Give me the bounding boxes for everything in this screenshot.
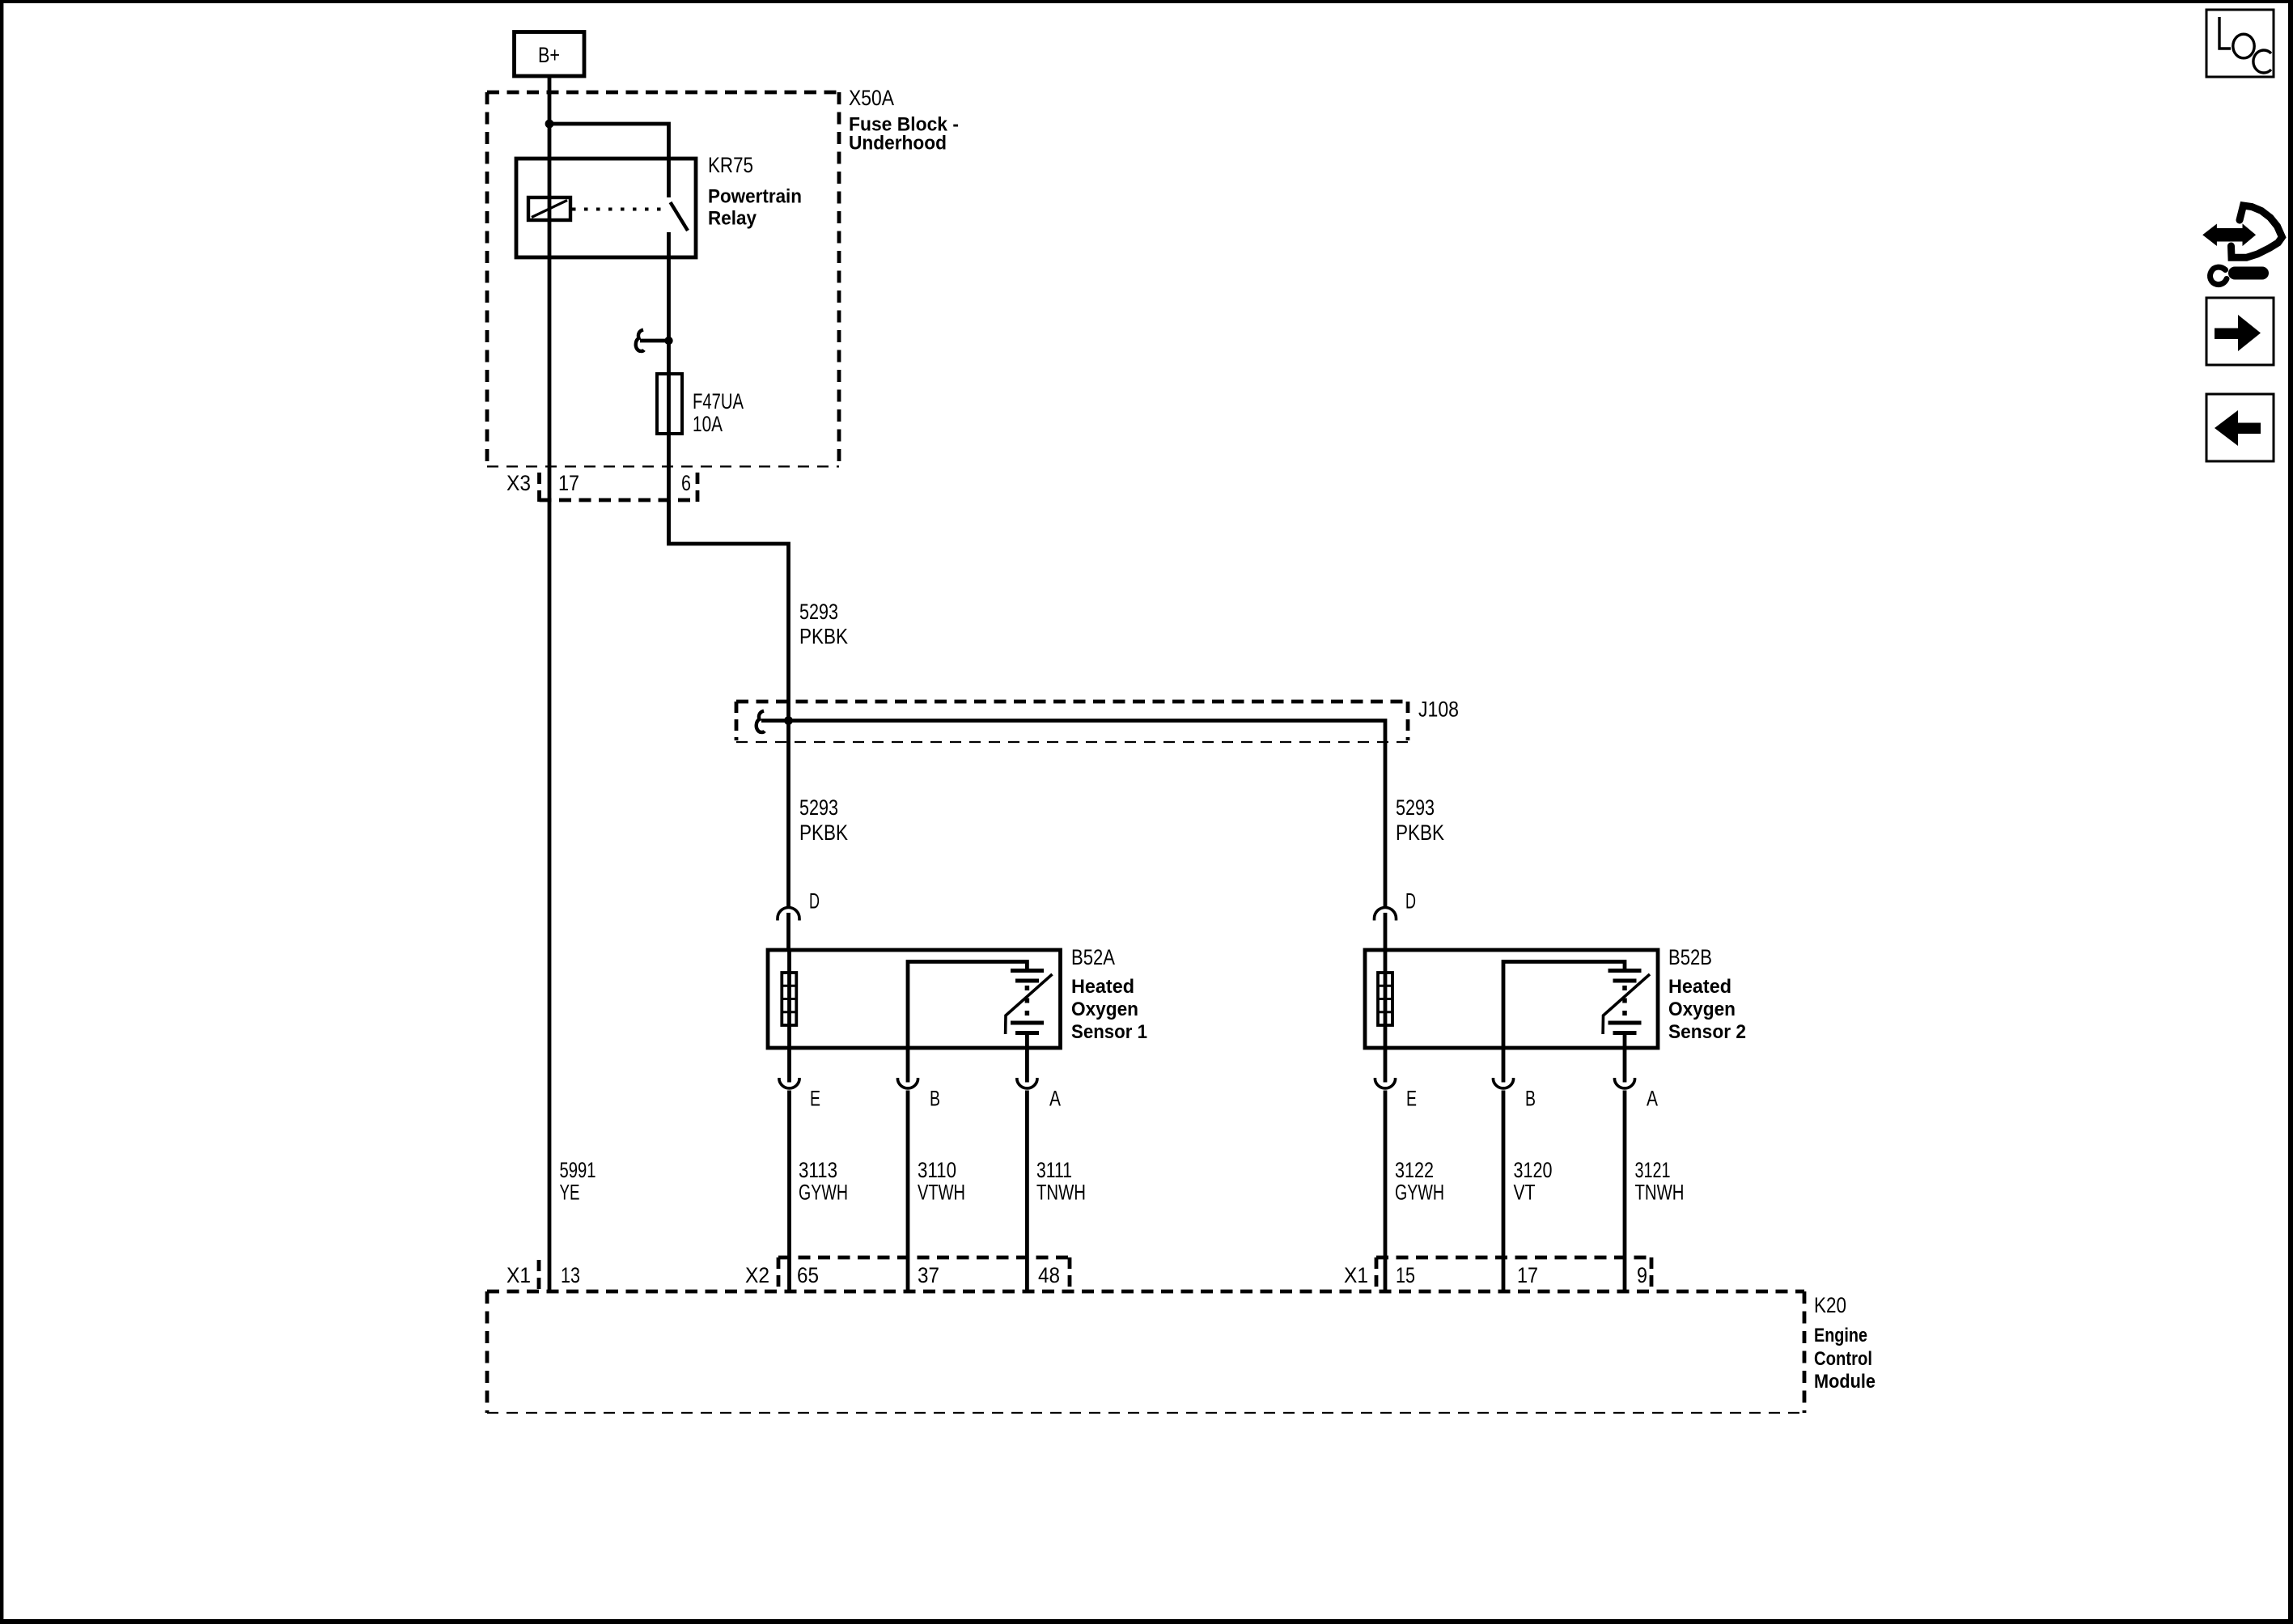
svg-text:6: 6	[681, 471, 691, 495]
svg-text:E: E	[810, 1087, 820, 1111]
node: fuse feed junction	[664, 337, 672, 345]
svg-text:Heated: Heated	[1668, 976, 1731, 998]
oxygen sensor 2 B52B box	[1365, 950, 1658, 1048]
svg-text:17: 17	[1517, 1263, 1538, 1287]
svg-text:37: 37	[918, 1263, 939, 1287]
svg-text:PKBK: PKBK	[1396, 820, 1444, 845]
wire 5293 jog from fuse	[669, 500, 789, 908]
K20 labels	[1814, 1293, 1876, 1393]
wire label 3110 VTWH	[918, 1158, 965, 1205]
svg-text:VT: VT	[1514, 1181, 1536, 1205]
svg-text:3121: 3121	[1635, 1158, 1671, 1182]
wire label 5293 PKBK upper	[799, 600, 848, 649]
splice J108 dashed box	[736, 698, 1459, 743]
node: splice junction	[784, 716, 793, 725]
wire label 3120 VT	[1514, 1158, 1553, 1205]
splice clip	[757, 711, 765, 732]
svg-text:15: 15	[1396, 1263, 1415, 1287]
harness routing icon	[2203, 206, 2282, 285]
svg-text:5293: 5293	[799, 600, 838, 624]
B52A internal wires	[787, 950, 791, 1048]
LOC box	[2206, 10, 2274, 77]
svg-text:A: A	[1049, 1087, 1061, 1111]
relay KR75 box	[516, 159, 696, 257]
pin D connector arc (sensor 2)	[1375, 889, 1417, 951]
relay link dotted line	[572, 208, 666, 211]
wire: B+ feed down to ECM pin 13	[548, 76, 552, 1291]
svg-text:B: B	[1525, 1087, 1536, 1111]
pin B connector (B52A), wire 3110	[898, 1048, 941, 1291]
svg-text:Sensor 1: Sensor 1	[1071, 1021, 1147, 1043]
svg-text:TNWH: TNWH	[1635, 1181, 1685, 1205]
svg-text:3111: 3111	[1036, 1158, 1072, 1182]
svg-text:3122: 3122	[1395, 1158, 1434, 1182]
wire label 5991 YE	[560, 1158, 596, 1205]
svg-text:17: 17	[558, 471, 579, 495]
B52A sensing cell	[1006, 971, 1053, 1049]
svg-text:GYWH: GYWH	[799, 1181, 848, 1205]
fuse block X50A dashed box	[487, 92, 839, 467]
svg-text:X2: X2	[745, 1263, 769, 1287]
svg-text:3110: 3110	[918, 1158, 956, 1182]
svg-text:YE: YE	[560, 1181, 580, 1205]
svg-text:Oxygen: Oxygen	[1668, 999, 1736, 1020]
svg-text:GYWH: GYWH	[1395, 1181, 1444, 1205]
wire label 3122 GYWH	[1395, 1158, 1444, 1205]
svg-text:E: E	[1406, 1087, 1417, 1111]
svg-text:B+: B+	[538, 43, 560, 67]
connector X1 bracket (pins 15 17 9)	[1344, 1257, 1651, 1291]
svg-text:F47UA: F47UA	[693, 389, 744, 413]
node: junction at relay feed	[545, 120, 554, 129]
svg-text:TNWH: TNWH	[1036, 1181, 1086, 1205]
pin A connector (B52A), wire 3111	[1017, 1048, 1061, 1291]
wire: branch to relay switch	[549, 124, 669, 197]
svg-text:9: 9	[1637, 1263, 1647, 1287]
wire label 5293 PKBK lower-left	[799, 795, 848, 845]
B+ power feed box	[515, 32, 585, 77]
right-arrow box	[2206, 298, 2274, 365]
svg-text:Oxygen: Oxygen	[1071, 999, 1138, 1020]
svg-text:J108: J108	[1418, 698, 1459, 722]
svg-text:D: D	[1405, 889, 1416, 914]
relay coil	[528, 197, 570, 220]
svg-text:48: 48	[1038, 1263, 1060, 1287]
wire: relay output to fuse	[667, 232, 671, 544]
B52B internal wires	[1384, 950, 1388, 1048]
svg-text:Powertrain: Powertrain	[708, 186, 802, 208]
svg-text:Relay: Relay	[708, 208, 757, 230]
pin B connector (B52B), wire 3120	[1494, 1048, 1536, 1291]
svg-text:10A: 10A	[693, 412, 723, 436]
connector X3 bracket	[506, 471, 697, 502]
page border frame	[0, 0, 2293, 3]
left-arrow box	[2206, 394, 2274, 461]
svg-text:X50A: X50A	[849, 86, 894, 110]
svg-text:13: 13	[561, 1263, 580, 1287]
B52A heater element	[782, 973, 796, 1025]
wire label 3113 GYWH	[799, 1158, 848, 1205]
svg-text:Underhood: Underhood	[849, 133, 947, 155]
pin A connector (B52B), wire 3121	[1615, 1048, 1659, 1291]
svg-text:D: D	[809, 889, 820, 914]
svg-text:B: B	[930, 1087, 940, 1111]
fuse F47UA	[657, 374, 744, 436]
wire label 3111 TNWH	[1036, 1158, 1086, 1205]
svg-text:B52A: B52A	[1071, 945, 1115, 969]
svg-text:PKBK: PKBK	[799, 625, 848, 649]
svg-text:X1: X1	[506, 1263, 531, 1287]
oxygen sensor 1 B52A box	[768, 950, 1061, 1048]
ECM K20 dashed box	[487, 1291, 1804, 1413]
pin D connector arc (sensor 1)	[778, 889, 820, 951]
connector X2 bracket (pins 65 37 48)	[745, 1257, 1070, 1291]
B52B heater element	[1378, 973, 1392, 1025]
svg-text:B52B: B52B	[1668, 945, 1712, 969]
svg-text:Module: Module	[1814, 1371, 1876, 1393]
svg-text:K20: K20	[1814, 1293, 1846, 1317]
svg-text:Heated: Heated	[1071, 976, 1134, 998]
pin E connector (B52B), wire 3122	[1375, 1048, 1418, 1291]
svg-text:3113: 3113	[799, 1158, 837, 1182]
wire label 3121 TNWH	[1635, 1158, 1685, 1205]
svg-text:5293: 5293	[799, 795, 838, 820]
svg-text:VTWH: VTWH	[918, 1181, 965, 1205]
wire: splice bus to sensor 2	[761, 721, 1385, 909]
svg-text:X3: X3	[506, 471, 531, 495]
svg-text:PKBK: PKBK	[799, 820, 848, 845]
wire label 5293 PKBK lower-right	[1396, 795, 1444, 845]
svg-text:5991: 5991	[560, 1158, 596, 1182]
relay switch blade	[671, 202, 689, 231]
svg-text:Sensor 2: Sensor 2	[1668, 1021, 1746, 1043]
B52B sensing cell	[1603, 971, 1650, 1049]
svg-text:65: 65	[797, 1263, 819, 1287]
svg-text:3120: 3120	[1514, 1158, 1553, 1182]
svg-text:5293: 5293	[1396, 795, 1435, 820]
fuse test clip	[636, 330, 669, 351]
svg-text:Engine: Engine	[1814, 1325, 1867, 1346]
X50A labels	[849, 86, 959, 155]
svg-text:Control: Control	[1814, 1348, 1872, 1370]
svg-text:X1: X1	[1344, 1263, 1368, 1287]
svg-text:KR75: KR75	[708, 153, 753, 177]
pin E connector (B52A), wire 3113	[779, 1048, 820, 1291]
svg-text:A: A	[1647, 1087, 1658, 1111]
connector X1 bracket (pin 13)	[506, 1260, 580, 1291]
